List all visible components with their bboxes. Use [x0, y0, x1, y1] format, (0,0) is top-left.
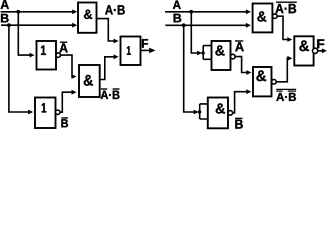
node F (left output label): [142, 39, 148, 48]
node A (left input label): [1, 0, 9, 9]
NAND2 output bubble: [231, 54, 236, 59]
wire AND1 output to OR top input: [97, 19, 117, 41]
NAND3 output bubble: [228, 111, 233, 116]
tie bar for NAND3 inputs: [200, 104, 208, 119]
wire B row (left): [1, 24, 75, 26]
NAND gate 2 (A-bar maker): [212, 41, 231, 70]
junction dot on NAND2 tie bar: [201, 51, 204, 54]
NAND5 output bubble: [313, 48, 318, 53]
NAND1 output bubble: [273, 14, 278, 19]
tie bar for NAND2 inputs: [203, 46, 211, 60]
wire B drop to NAND3 tie bar: [184, 25, 196, 112]
node A (right input label): [173, 1, 181, 9]
wire NAND1 output to NAND5 top input: [277, 16, 290, 39]
label B-bar (left): [61, 119, 68, 127]
junction dot on B row (right): [182, 23, 186, 27]
wire A row (left): [1, 11, 75, 13]
junction dot on A row (right): [189, 10, 193, 14]
label A*B (AND1 output): [105, 5, 125, 14]
wire OR output to F: [141, 49, 152, 51]
wire B row (right): [165, 24, 248, 26]
junction dot on B row (left): [7, 23, 11, 27]
NAND gate 5 (final, output F): [294, 36, 313, 65]
OR gate (left output gate): [121, 37, 141, 66]
label A-bar (left): [59, 43, 67, 52]
NAND gate 4 (mid right): [253, 67, 272, 96]
junction dot on A row (left): [16, 10, 20, 14]
node B (right input label): [174, 14, 182, 22]
NOT gate 1 (inverter A): [37, 41, 57, 70]
wire NOT1 output to AND2 top input: [60, 55, 74, 76]
wire AND2 output to OR bottom input: [100, 57, 116, 80]
wire NOT2 output to AND2 bottom input: [60, 92, 74, 112]
NOT2 output bubble: [56, 110, 60, 114]
label A-bar (right): [235, 42, 244, 51]
NAND gate 1 (top right, A nand B): [253, 4, 273, 33]
wire NAND5 output to F: [318, 50, 325, 52]
label B-bar (right): [235, 120, 243, 129]
NOT1 output bubble: [56, 53, 60, 57]
NAND4 output bubble: [272, 80, 277, 85]
NAND gate 3 (B-bar maker): [208, 98, 228, 129]
wire A drop to NAND2 tie bar: [191, 12, 199, 53]
wire A row (right): [165, 11, 248, 13]
label double-overline Abar*Bbar (NAND4 output): [276, 93, 296, 101]
node F (right output label): [317, 39, 324, 48]
wire NAND4 output to NAND5 bottom input: [276, 58, 290, 82]
NOT gate 2 (inverter B): [35, 98, 56, 129]
label overline(A*B) (NAND1 output): [275, 4, 296, 13]
junction dot on NAND3 tie bar: [198, 110, 201, 113]
wire B drop to NOT2: [9, 25, 31, 112]
label Abar*Bbar (AND2 output): [101, 91, 120, 99]
AND gate 2 (mid left, Abar*Bbar): [79, 65, 100, 97]
AND gate 1 (top left, A*B): [78, 3, 97, 33]
wire NAND3 output to NAND4 bottom input: [233, 92, 249, 113]
node B (left input label): [1, 14, 9, 23]
wire NAND2 output to NAND4 top input: [235, 57, 249, 73]
wire A drop to NOT1: [18, 12, 32, 55]
